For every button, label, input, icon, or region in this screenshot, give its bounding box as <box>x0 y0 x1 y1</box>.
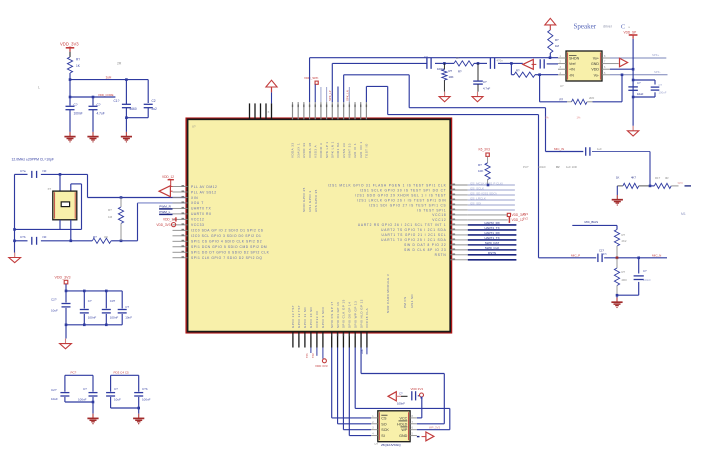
svg-text:SPI1 DO DT GPIO 6 SDIO D2 SP: SPI1 DO DT GPIO 6 SDIO D2 SPI2 CLK <box>191 251 270 255</box>
svg-text:C1?: C1? <box>114 99 120 103</box>
svg-text:M1: M1 <box>681 212 686 216</box>
svg-text:X?: X? <box>48 187 52 191</box>
svg-text:4660: 4660 <box>130 107 137 111</box>
svg-text:1V2: 1V2 <box>523 217 529 221</box>
svg-text:SDIO GPIO 25: SDIO GPIO 25 <box>302 187 306 212</box>
svg-text:C1?: C1? <box>599 249 604 253</box>
svg-text:100nF: 100nF <box>659 91 667 95</box>
svg-text:VDD_3V3: VDD_3V3 <box>55 276 71 280</box>
svg-text:R?: R? <box>76 58 80 62</box>
svg-text:VDDIO 3: VDDIO 3 <box>319 143 323 158</box>
svg-text:SW D CLK 8P IO 23: SW D CLK 8P IO 23 <box>404 248 446 252</box>
svg-text:GPIO 11 SD: GPIO 11 SD <box>303 307 307 328</box>
svg-text:VCC33 IO: VCC33 IO <box>315 311 319 328</box>
svg-text:10uF: 10uF <box>637 92 644 96</box>
svg-text:AVSS 33: AVSS 33 <box>342 143 346 158</box>
svg-text:PLL AV DM12: PLL AV DM12 <box>191 185 217 189</box>
svg-text:Speaker: Speaker <box>574 23 597 31</box>
svg-text:GPIO 12 TST: GPIO 12 TST <box>297 305 301 328</box>
svg-text:R?: R? <box>108 208 112 212</box>
svg-text:12.0MHz ±20PPM CL=10pF: 12.0MHz ±20PPM CL=10pF <box>12 158 54 162</box>
svg-text:GPIO 13 TST: GPIO 13 TST <box>291 305 295 328</box>
svg-text:VCC18: VCC18 <box>432 213 446 217</box>
svg-text:32K XI 1: 32K XI 1 <box>353 143 357 158</box>
svg-text:C2?: C2? <box>51 298 57 302</box>
svg-text:SPK_LN: SPK_LN <box>345 90 349 101</box>
svg-text:VDDA 18: VDDA 18 <box>308 143 312 159</box>
svg-text:C?b: C?b <box>20 235 26 239</box>
svg-text:I2S_LRCLK: I2S_LRCLK <box>470 196 486 200</box>
svg-text:VCC33: VCC33 <box>191 223 204 227</box>
svg-text:C?: C? <box>114 387 118 391</box>
svg-text:UART1_TX: UART1_TX <box>484 236 499 240</box>
svg-text:SPI1 CLK GPIO 7 SDIO D2 SPI2: SPI1 CLK GPIO 7 SDIO D2 SPI2 DQ <box>191 256 262 260</box>
svg-text:I2S1 SDI GPIO 27 IS TEST SPI1: I2S1 SDI GPIO 27 IS TEST SPI1 CS <box>369 203 447 207</box>
svg-text:SWD_DAT: SWD_DAT <box>485 241 500 245</box>
svg-text:NOR CARD MODULE V: NOR CARD MODULE V <box>386 274 390 313</box>
svg-text:Vref: Vref <box>569 62 575 66</box>
svg-text:SPI0 CLK GP 15: SPI0 CLK GP 15 <box>342 299 346 328</box>
svg-text:R1?: R1? <box>655 176 661 180</box>
svg-text:C3?: C3? <box>110 299 116 303</box>
svg-text:SPI0 WP GP 13: SPI0 WP GP 13 <box>353 301 357 328</box>
svg-text:100nF: 100nF <box>74 112 83 116</box>
svg-text:R?: R? <box>555 38 559 42</box>
svg-text:I2S1 SCLK GPIO 30 IS TEST SPI: I2S1 SCLK GPIO 30 IS TEST SPI DO CT <box>360 188 447 192</box>
svg-text:1uH: 1uH <box>106 75 113 79</box>
svg-text:NF: NF <box>43 169 47 173</box>
svg-text:PLL AV SS12: PLL AV SS12 <box>191 190 217 194</box>
svg-text:10K: 10K <box>449 75 454 79</box>
svg-text:U?: U? <box>560 84 564 88</box>
svg-text:VDD_3V3: VDD_3V3 <box>156 223 170 227</box>
svg-text:R?: R? <box>560 97 564 101</box>
svg-text:SPI1 CS GPIO 4 SDIO CLK SPI2: SPI1 CS GPIO 4 SDIO CLK SPI2 D2 <box>191 240 262 244</box>
svg-text:SPK LN 1: SPK LN 1 <box>330 141 334 158</box>
svg-text:SCK: SCK <box>381 428 389 432</box>
svg-text:100nF: 100nF <box>110 316 119 320</box>
svg-text:SPI1 DCN GPIO 5 SDIO CMD S: SPI1 DCN GPIO 5 SDIO CMD SPI2 DM <box>191 245 267 249</box>
svg-text:25Q32JVSSIQ: 25Q32JVSSIQ <box>381 443 401 447</box>
svg-text:NF: NF <box>43 235 47 239</box>
svg-text:C?: C? <box>83 387 87 391</box>
svg-text:SPK_LP: SPK_LP <box>328 90 332 101</box>
svg-text:RSTN: RSTN <box>488 251 496 255</box>
svg-text:C?a: C?a <box>20 169 26 173</box>
svg-text:MIC_P: MIC_P <box>571 254 580 258</box>
svg-text:TP2: TP2 <box>311 353 315 358</box>
svg-text:I2S1 GPIO 3: I2S1 GPIO 3 <box>308 191 312 212</box>
svg-text:VDD_SPK: VDD_SPK <box>304 76 319 80</box>
svg-text:VDDA 33: VDDA 33 <box>291 143 295 159</box>
svg-text:I2S1 SD: I2S1 SD <box>410 294 414 308</box>
svg-text:1K: 1K <box>616 176 620 180</box>
svg-text:+IN: +IN <box>569 68 575 72</box>
svg-text:C?: C? <box>483 80 487 84</box>
svg-text:SI: SI <box>381 434 384 438</box>
svg-text:C?: C? <box>399 392 403 396</box>
svg-text:U?: U? <box>192 125 196 129</box>
svg-text:I2S1 LRCLK GPIO 26 I IS TEST: I2S1 LRCLK GPIO 26 I IS TEST SPI1 DIN <box>357 198 446 202</box>
svg-text:L: L <box>38 86 40 90</box>
svg-text:MIC_N: MIC_N <box>652 253 661 257</box>
svg-text:SPI0 HLD GP 12: SPI0 HLD GP 12 <box>359 299 363 328</box>
svg-text:2u2: 2u2 <box>152 107 158 111</box>
svg-text:10nF: 10nF <box>125 316 132 320</box>
svg-text:PWM_L: PWM_L <box>159 210 170 214</box>
svg-text:C: C <box>621 24 625 31</box>
svg-text:VSS3 A: VSS3 A <box>313 145 317 158</box>
svg-text:I2C0 SCL GPIO 3 SDIO D0 SPI2: I2C0 SCL GPIO 3 SDIO D0 SPI2 D1 <box>191 234 261 238</box>
svg-text:2R0: 2R0 <box>622 278 628 282</box>
svg-text:AVDD 33: AVDD 33 <box>302 143 306 158</box>
svg-text:MIC_BIAS: MIC_BIAS <box>585 220 599 224</box>
svg-text:100nF: 100nF <box>643 278 651 282</box>
svg-text:2R: 2R <box>117 62 122 66</box>
svg-text:UART1_RX: UART1_RX <box>484 231 500 235</box>
svg-text:PD3 C4 C5: PD3 C4 C5 <box>114 371 130 375</box>
svg-text:C?: C? <box>643 269 647 273</box>
svg-text:100nF: 100nF <box>397 402 405 406</box>
svg-text:MIC_IN: MIC_IN <box>554 147 564 151</box>
svg-text:32K XO 1: 32K XO 1 <box>359 141 363 158</box>
svg-text:VDD_SP: VDD_SP <box>624 31 637 35</box>
svg-text:VCC12: VCC12 <box>191 218 204 222</box>
svg-text:1K: 1K <box>456 56 460 60</box>
svg-text:1M: 1M <box>108 215 113 219</box>
svg-text:C2?: C2? <box>51 388 57 392</box>
svg-text:VBAT 33: VBAT 33 <box>348 143 352 158</box>
svg-text:UART2_TX: UART2_TX <box>484 226 499 230</box>
svg-text:PU?: PU? <box>523 165 529 169</box>
svg-text:100nF: 100nF <box>142 398 151 402</box>
svg-text:2R0: 2R0 <box>589 96 595 100</box>
svg-text:C?: C? <box>74 103 78 107</box>
svg-text:2K2: 2K2 <box>622 239 627 243</box>
svg-text:R?: R? <box>622 233 626 237</box>
svg-text:PWM_R: PWM_R <box>159 205 171 209</box>
svg-text:TEST IO: TEST IO <box>365 143 369 158</box>
svg-text:PC?: PC? <box>71 371 77 375</box>
svg-text:WP: WP <box>401 428 407 432</box>
svg-text:470n: 470n <box>497 59 504 63</box>
svg-text:I2S1 MCLK GPIO 31 FLASH PGEN: I2S1 MCLK GPIO 31 FLASH PGEN 1 IS TEST S… <box>328 183 447 187</box>
svg-text:1M: 1M <box>555 44 560 48</box>
svg-text:0R: 0R <box>665 176 669 180</box>
svg-text:VDD_3V3: VDD_3V3 <box>60 42 79 47</box>
svg-text:R?: R? <box>622 270 626 274</box>
svg-text:I2S_SD (I2S1 SDO): I2S_SD (I2S1 SDO) <box>470 191 497 195</box>
svg-text:R?: R? <box>458 70 462 74</box>
svg-text:R?: R? <box>478 163 482 167</box>
svg-text:SPK+: SPK+ <box>652 53 660 57</box>
svg-text:SPI0 D0 GP 14: SPI0 D0 GP 14 <box>348 302 352 328</box>
svg-text:UART2 RS GPIO 26 I 2C1 SCL TS: UART2 RS GPIO 26 I 2C1 SCL TST INT 1 <box>358 223 447 227</box>
svg-text:RSTN: RSTN <box>435 253 447 257</box>
svg-text:VDD 3V3: VDD 3V3 <box>315 364 328 368</box>
svg-text:AVS GPIO 35: AVS GPIO 35 <box>314 189 318 212</box>
svg-text:GND: GND <box>591 62 599 66</box>
svg-text:C?: C? <box>637 81 641 85</box>
svg-text:UART0 TX: UART0 TX <box>191 207 211 211</box>
svg-text:VDD_CORE: VDD_CORE <box>98 93 114 97</box>
svg-text:1uF 10R: 1uF 10R <box>566 165 577 169</box>
svg-text:R2: R2 <box>556 165 560 169</box>
svg-text:3V3: 3V3 <box>523 212 529 216</box>
svg-text:X: X <box>268 110 270 114</box>
svg-text:VCC18 FLA: VCC18 FLA <box>365 308 369 328</box>
svg-text:4.7uF: 4.7uF <box>97 112 105 116</box>
svg-text:UART2_RX: UART2_RX <box>484 221 500 225</box>
svg-text:PM CS: PM CS <box>403 296 407 308</box>
svg-text:R?: R? <box>93 235 97 239</box>
svg-text:SWD_CLK: SWD_CLK <box>485 246 500 250</box>
svg-text:Vo-: Vo- <box>594 73 600 77</box>
svg-text:Vo+: Vo+ <box>593 57 599 61</box>
svg-text:UART1 TX GPIO 25 I 2C1 SDA: UART1 TX GPIO 25 I 2C1 SDA <box>381 238 446 242</box>
svg-text:10K: 10K <box>478 169 483 173</box>
svg-text:HOLD: HOLD <box>397 422 408 426</box>
svg-text:VDD_12: VDD_12 <box>162 175 174 179</box>
svg-text:SPK LP 1: SPK LP 1 <box>325 141 329 158</box>
svg-text:GPIO 10 SD: GPIO 10 SD <box>309 306 313 328</box>
svg-text:I2S1 SDO GPIO 29 XHDR SEL 1: I2S1 SDO GPIO 29 XHDR SEL 1 I IS TEST <box>355 193 446 197</box>
svg-text:I2S_MCLK (I2S1 P CLK): I2S_MCLK (I2S1 P CLK) <box>470 181 503 185</box>
svg-text:R?: R? <box>449 69 453 73</box>
svg-text:C?: C? <box>88 299 92 303</box>
svg-text:SPI0 D1 GP 16: SPI0 D1 GP 16 <box>336 302 340 328</box>
svg-text:100nF: 100nF <box>88 316 97 320</box>
svg-text:IS TEST SPI1: IS TEST SPI1 <box>417 208 446 212</box>
svg-text:NF5: NF5 <box>602 252 608 256</box>
svg-text:VDD1 8A: VDD1 8A <box>336 142 340 158</box>
svg-text:GPIO 9 SDX: GPIO 9 SDX <box>321 306 325 328</box>
svg-text:VDD_12: VDD_12 <box>163 218 175 222</box>
svg-text:XOU T: XOU T <box>191 201 204 205</box>
svg-text:U?: U? <box>375 442 379 446</box>
svg-text:UART0 RX: UART0 RX <box>191 212 212 216</box>
svg-text:UART2 TS GPIO 76 I 2C1 SDA: UART2 TS GPIO 76 I 2C1 SDA <box>381 228 446 232</box>
svg-text:R?: R? <box>516 69 520 73</box>
svg-text:GND: GND <box>399 434 408 438</box>
svg-text:I2S_SDI: I2S_SDI <box>470 201 481 205</box>
svg-text:VDD 3V3: VDD 3V3 <box>411 387 424 391</box>
svg-text:WP_3V3: WP_3V3 <box>429 426 440 430</box>
svg-text:CS: CS <box>381 416 387 420</box>
svg-text:10uF: 10uF <box>51 397 58 401</box>
svg-text:4.7nF: 4.7nF <box>483 87 490 91</box>
svg-text:100nF: 100nF <box>78 398 87 402</box>
svg-text:driver: driver <box>603 25 613 29</box>
svg-text:K6_3V3: K6_3V3 <box>479 148 491 152</box>
svg-text:XIN: XIN <box>191 196 198 200</box>
svg-text:SO: SO <box>381 422 386 426</box>
svg-text:I2C0 SDA GP IO 2 SDIO D1 SPI: I2C0 SDA GP IO 2 SDIO D1 SPI2 CS <box>191 229 264 233</box>
svg-text:C2: C2 <box>152 99 156 103</box>
svg-text:SPK-: SPK- <box>654 70 661 74</box>
svg-text:SW D DAT 8 PIO 22: SW D DAT 8 PIO 22 <box>404 243 446 247</box>
svg-text:10uF: 10uF <box>114 398 121 402</box>
svg-text:100nF: 100nF <box>538 165 546 169</box>
svg-text:C?: C? <box>659 83 663 87</box>
svg-text:10uF: 10uF <box>51 309 58 313</box>
svg-text:SHDN: SHDN <box>569 57 580 61</box>
svg-text:C?: C? <box>424 55 428 59</box>
svg-text:SPK: SPK <box>678 181 684 185</box>
svg-text:32K: 32K <box>360 349 364 354</box>
svg-text:UART1 TS GPIO 21 I 2C1 SCL: UART1 TS GPIO 21 I 2C1 SCL <box>382 233 447 237</box>
svg-text:VCC12: VCC12 <box>432 218 446 222</box>
svg-text:-IN: -IN <box>569 73 574 77</box>
svg-text:33AUX 1: 33AUX 1 <box>296 143 300 158</box>
svg-text:I2S_SCLK: I2S_SCLK <box>470 186 484 190</box>
svg-text:C?: C? <box>97 103 101 107</box>
svg-text:VCC: VCC <box>400 416 408 420</box>
svg-text:C?b: C?b <box>142 387 148 391</box>
svg-text:1uF: 1uF <box>597 147 602 151</box>
svg-text:C?: C? <box>125 305 129 309</box>
svg-text:VDD: VDD <box>591 68 599 72</box>
svg-text:TP1: TP1 <box>305 353 309 358</box>
svg-text:4K7: 4K7 <box>631 176 636 180</box>
svg-text:SPI0 CS GP 17: SPI0 CS GP 17 <box>330 301 334 328</box>
